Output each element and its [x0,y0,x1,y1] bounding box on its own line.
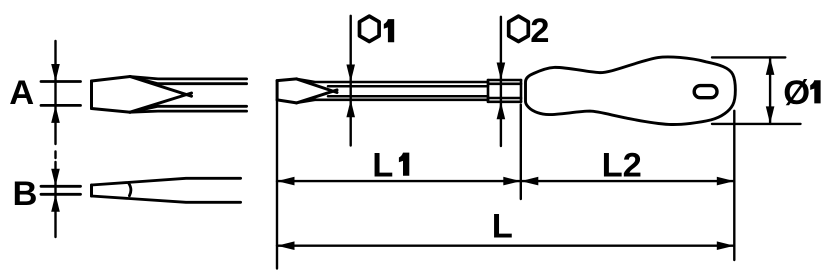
svg-text:L: L [492,207,513,245]
svg-text:2: 2 [530,12,549,50]
svg-text:B: B [13,175,38,213]
svg-text:L: L [372,146,393,184]
svg-text:L2: L2 [602,146,642,184]
svg-text:Ø: Ø [783,74,810,112]
svg-text:A: A [9,74,34,112]
